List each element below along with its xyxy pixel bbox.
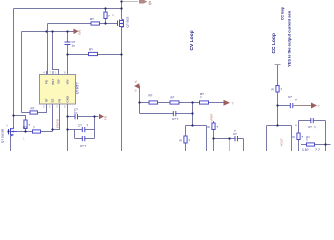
wire IC pin4 bottom vertical bbox=[67, 108, 69, 152]
junction R1 bottom gate rail bbox=[104, 22, 106, 24]
wire port FB stub bbox=[135, 86, 140, 114]
wire x=266.5 down bbox=[266, 126, 268, 152]
junction Q2 gate bbox=[7, 130, 9, 132]
junction R10 bottom rail bbox=[212, 137, 214, 139]
port 5V left-top bbox=[74, 29, 82, 36]
svg-text:YES is the output current sen: YES is the output current sen bbox=[287, 10, 292, 67]
svg-text:GND: GND bbox=[66, 96, 70, 102]
svg-text:o: o bbox=[135, 89, 137, 93]
junction C1 bottom BST rail bbox=[66, 53, 68, 55]
junction IC pin jog bbox=[51, 128, 53, 130]
wire x=67.5 vertical cap branch bbox=[67, 32, 69, 75]
wire grey top to port 6 bbox=[122, 1, 139, 3]
port FB right of cap row bbox=[99, 114, 108, 120]
resistor R2 gate series bbox=[90, 17, 100, 25]
wire R9 bottom lead bbox=[185, 143, 187, 151]
wire x=213.5 vertical bbox=[213, 121, 215, 123]
IC pin names bbox=[45, 79, 70, 103]
wire y=105.5 row to cap and port bbox=[278, 105, 291, 107]
wire R10 bottom lead bbox=[213, 130, 215, 152]
capacitor C1 at x=67.5 y=43 bbox=[64, 42, 71, 45]
wire y=144 bottom row bbox=[301, 144, 331, 146]
capacitor C5 on y=113.5 bbox=[173, 111, 176, 117]
svg-text:R?: R? bbox=[23, 125, 27, 129]
junction C6 rail bbox=[228, 137, 230, 139]
wire y=112 row to R5 bbox=[22, 108, 47, 113]
resistor R9 vertical x=185.5 bbox=[180, 136, 191, 143]
IC U1 body bbox=[40, 75, 76, 105]
wire x=21 vertical bbox=[21, 32, 23, 113]
wire x=192.5 vertical bbox=[192, 103, 194, 126]
svg-text:C?: C? bbox=[78, 124, 82, 128]
resistor R4 vertical left bbox=[24, 120, 31, 129]
junction C5 rail bbox=[191, 112, 193, 114]
junction R13 right bbox=[324, 143, 326, 145]
wire x=52.5 up to IC bbox=[52, 108, 54, 132]
junction C2 rail right bbox=[93, 115, 95, 117]
resistor R7 on y=102 bbox=[170, 96, 179, 105]
wire C7 to port (brown) bbox=[294, 105, 312, 107]
svg-text:5V0: 5V0 bbox=[78, 29, 82, 35]
wire x=206.5 vertical bbox=[206, 126, 208, 152]
svg-text:R?: R? bbox=[90, 17, 94, 21]
svg-text:R?: R? bbox=[31, 107, 35, 111]
wire R11 bottom lead bbox=[277, 92, 279, 126]
junction GND pin C2 rail bbox=[66, 115, 68, 117]
svg-text:FB: FB bbox=[58, 99, 62, 103]
wire q2 source down bbox=[10, 136, 12, 151]
junction x=13 R4 branch bbox=[12, 114, 14, 116]
svg-text:R?: R? bbox=[149, 94, 153, 98]
wire grey vertical x=229.5 bbox=[229, 139, 231, 152]
wire y=138.5 cap row bbox=[75, 138, 95, 140]
port 6 top bbox=[139, 0, 152, 7]
wire mosfet top lead bbox=[121, 2, 123, 20]
wire y=125.5 right rail bbox=[267, 125, 292, 127]
wire jog to IC pin3 bbox=[53, 32, 59, 75]
svg-text:VIN: VIN bbox=[66, 80, 70, 85]
wire pin jog y=129.5 bbox=[53, 108, 60, 130]
svg-text:C?: C? bbox=[288, 95, 292, 99]
svg-text:C?: C? bbox=[308, 125, 312, 129]
wire y=125.5 rail bbox=[186, 125, 207, 127]
resistor R8 on y=102 bbox=[200, 92, 209, 104]
capacitor C2 on y=116.5 bbox=[75, 114, 78, 120]
svg-text:?: ? bbox=[232, 102, 234, 106]
wire y=102 divider rail bbox=[140, 102, 224, 104]
capacitor C3 on y=129.5 bbox=[82, 127, 85, 133]
svg-text:R?: R? bbox=[171, 96, 175, 100]
wire x=94 vertical bbox=[94, 117, 96, 139]
wire left jog to R4 bbox=[14, 116, 26, 121]
resistor R1 vertical at x=105.5 bbox=[104, 12, 110, 19]
wire R4 bottom bbox=[25, 129, 27, 132]
capacitor C8 on y=120.5 bbox=[311, 118, 314, 124]
wire y=113.5 cap rail bbox=[140, 113, 193, 115]
wire vertical resistor R1 leads bbox=[105, 9, 107, 13]
resistor R13 on y=144.5 bbox=[306, 136, 315, 147]
resistor R10 vertical x=213.5 bbox=[208, 123, 219, 130]
svg-text:1.5?: 1.5? bbox=[302, 148, 309, 151]
svg-text:CC loop: CC loop bbox=[281, 7, 285, 20]
wire y=129.5 cap row bbox=[68, 129, 95, 131]
junction y=125 right rail bbox=[276, 124, 278, 126]
IC pin numbers bbox=[43, 71, 66, 109]
svg-text:Q? Si23: Q? Si23 bbox=[126, 16, 130, 27]
capacitor C7 on y=105.5 bbox=[290, 103, 293, 109]
wire left vertical x=13 bbox=[13, 9, 15, 128]
junction C3 rail left bbox=[66, 128, 68, 130]
svg-text:SW: SW bbox=[57, 79, 61, 84]
wire mosfet bottom vertical x=121 bbox=[121, 27, 123, 151]
wire y=54 to mosfet drain node bbox=[68, 54, 122, 56]
junction 5V rail x=46.5 bbox=[45, 30, 47, 32]
wire gate rail y=23 bbox=[48, 23, 118, 25]
svg-text:R?: R? bbox=[89, 48, 93, 52]
svg-text:C? ?: C? ? bbox=[80, 144, 87, 148]
svg-text:CV Loop: CV Loop bbox=[189, 30, 195, 50]
IC pin stubs top bbox=[47, 71, 68, 108]
junction 5V rail x=52.5 bbox=[51, 30, 53, 32]
wire top rail y=8 bbox=[14, 8, 122, 10]
svg-text:RT: RT bbox=[45, 98, 49, 102]
wire q2 drain row y=131.5 bbox=[17, 131, 53, 133]
wire x=185.5 vertical with R bbox=[185, 126, 187, 137]
wire x=47 to IC pin bbox=[47, 24, 49, 75]
junction FB divider tap bbox=[138, 101, 140, 103]
resistor R3 on y=54 bbox=[89, 48, 98, 56]
svg-text:U? RT?: U? RT? bbox=[76, 82, 80, 94]
svg-text:6: 6 bbox=[149, 1, 152, 7]
junction R11 bottom C7 rail bbox=[276, 104, 278, 106]
wire right block top with cap bbox=[299, 120, 326, 122]
svg-text:Q? Si2305: Q? Si2305 bbox=[1, 128, 5, 143]
wire right block left vertical bbox=[298, 121, 300, 134]
svg-text:CC Loop: CC Loop bbox=[271, 33, 277, 53]
junction y=125 rail bbox=[191, 124, 193, 126]
port 1V25 right of y=102 bbox=[224, 100, 234, 106]
capacitor C6 on y=138.5 bbox=[235, 136, 238, 142]
mosfet Q1 bbox=[118, 19, 124, 27]
junction 5V rail at C1 bbox=[66, 30, 68, 32]
svg-text:C? ?: C? ? bbox=[172, 117, 179, 121]
resistor R5 on y=112 bbox=[30, 107, 38, 115]
svg-text:? ?: ? ? bbox=[315, 148, 320, 151]
svg-text:1u: 1u bbox=[74, 111, 78, 115]
svg-text:PG: PG bbox=[45, 79, 49, 84]
wire y=138.5 row to cap bbox=[214, 138, 244, 140]
svg-text:?: ? bbox=[318, 105, 320, 109]
wire right block right vertical bbox=[325, 121, 327, 152]
wire x=277 net vertical bbox=[277, 65, 279, 86]
svg-text:BST: BST bbox=[51, 79, 55, 85]
junction R1 top bbox=[104, 7, 106, 9]
svg-text:VOUT: VOUT bbox=[280, 138, 284, 147]
wire x=74 vertical bbox=[74, 130, 76, 139]
svg-text:SS: SS bbox=[51, 99, 55, 103]
port VOUT left-pointing mid bbox=[134, 80, 139, 92]
junction node VIN rail / Q1 drain bbox=[120, 7, 122, 9]
junction divider mid bbox=[191, 101, 193, 103]
wire R1 bottom lead bbox=[105, 19, 107, 24]
power tick top of x=277 bbox=[275, 64, 281, 66]
svg-text:1u: 1u bbox=[72, 44, 76, 48]
resistor R12 vertical x=298.5 bbox=[293, 133, 304, 140]
wire x=243.5 down bbox=[243, 139, 245, 152]
wire x=291.5 down bbox=[291, 126, 293, 152]
port right of y=105.5 bbox=[311, 103, 320, 109]
svg-text:FB: FB bbox=[104, 116, 108, 120]
resistor R6 on y=131.5 bbox=[23, 125, 41, 133]
capacitor C4 on y=138.5 bbox=[82, 136, 85, 142]
resistor R7a on y=102 bbox=[149, 94, 158, 105]
wire R12 bottom lead bbox=[298, 140, 300, 152]
svg-text:EN/FB: EN/FB bbox=[56, 119, 60, 128]
resistor R11 vertical x=277 bbox=[272, 86, 283, 93]
junction R4 bottom Q2 row bbox=[24, 130, 26, 132]
junction top port-6 net bbox=[120, 0, 122, 2]
wire y=31 rail bbox=[22, 31, 74, 33]
mosfet Q2 bbox=[9, 127, 18, 136]
junction node SW bbox=[120, 53, 122, 55]
svg-text:VREF: VREF bbox=[210, 113, 214, 121]
wire y=116.5 cap row to port bbox=[68, 116, 99, 118]
